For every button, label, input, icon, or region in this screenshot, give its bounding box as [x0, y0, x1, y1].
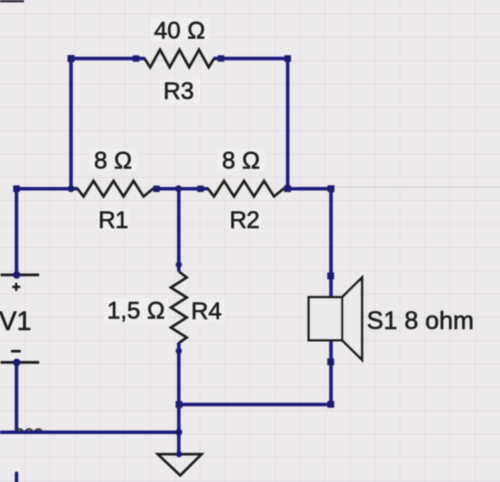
wire R4 bottom down to ground	[177, 343, 181, 455]
wire node A to junction B	[17, 187, 72, 191]
wire bottom-left rail	[0, 430, 179, 434]
wire V1 bottom down	[15, 363, 19, 432]
pin speaker top	[327, 273, 334, 280]
speaker S1 body rect	[309, 297, 343, 340]
svg-text:V1: V1	[0, 306, 31, 336]
pin R1 right	[153, 186, 159, 192]
battery V1 top plate	[1, 273, 40, 276]
svg-text:R4: R4	[191, 298, 222, 325]
junction bottom rail at R4	[176, 401, 183, 408]
battery V1 plus sign	[12, 283, 20, 291]
resistor R2 zigzag	[208, 181, 284, 197]
R4 bottom pin dot	[176, 348, 182, 354]
pin speaker bottom	[327, 358, 334, 365]
battery bottom terminal dot	[13, 359, 21, 367]
wire V1 top riser	[15, 189, 19, 274]
pin R3 right	[218, 55, 224, 61]
resistor R1 zigzag	[78, 181, 154, 197]
corner top-right	[284, 55, 291, 62]
wire R3 right to top-right corner	[214, 57, 288, 61]
wire bottom rail speaker to R4 branch	[179, 403, 331, 407]
pin R2 left	[197, 186, 203, 192]
wire left riser B up to R3 branch corner	[69, 59, 73, 189]
wire speaker body to bottom rail	[329, 340, 333, 404]
artifact squiggles above bottom rail	[16, 429, 42, 431]
wire stub bottom edge	[15, 473, 18, 482]
svg-text:1,5 Ω: 1,5 Ω	[107, 298, 165, 325]
resistor R4 zigzag vertical	[171, 272, 187, 344]
R4 top pin dot	[176, 262, 182, 268]
ground top dot	[176, 451, 182, 457]
top-left dark artifact bar	[0, 0, 24, 2]
ground symbol triangle	[158, 454, 202, 475]
svg-text:40 Ω: 40 Ω	[154, 18, 205, 45]
svg-text:R3: R3	[163, 78, 194, 105]
node A corner	[13, 185, 20, 192]
svg-text:8 Ω: 8 Ω	[94, 148, 132, 175]
resistor R3 zigzag	[145, 50, 215, 68]
svg-text:R1: R1	[98, 207, 128, 234]
battery V1 minus sign	[11, 350, 21, 353]
corner speaker top	[328, 185, 335, 192]
junction R2 right	[284, 185, 291, 192]
wire top-left horizontal to R3	[71, 57, 145, 61]
wire speaker branch down to speaker body	[329, 189, 333, 298]
pin R3 left	[133, 55, 139, 61]
svg-text:R2: R2	[229, 207, 259, 234]
corner speaker bottom rail	[327, 401, 334, 408]
junction squares and pins	[13, 55, 334, 408]
junction bottom-left rail dot	[175, 429, 182, 436]
svg-text:8 Ω: 8 Ω	[222, 148, 260, 175]
junction B dot	[68, 185, 75, 192]
corner top-left	[68, 55, 75, 62]
wire R2 right to speaker corner	[283, 187, 331, 191]
battery top terminal dot	[13, 271, 21, 279]
svg-text:S1 8 ohm: S1 8 ohm	[367, 307, 474, 335]
wire right riser down to R2 output node	[286, 59, 290, 189]
junction R1-R2-R4 dot	[175, 185, 182, 192]
wire R1 left lead	[71, 187, 78, 191]
wire R1 right to R2 left	[153, 187, 209, 191]
wire R4 branch from node down to resistor	[177, 189, 181, 272]
battery V1 bottom plate	[1, 361, 40, 364]
speaker S1 horn	[342, 278, 362, 360]
